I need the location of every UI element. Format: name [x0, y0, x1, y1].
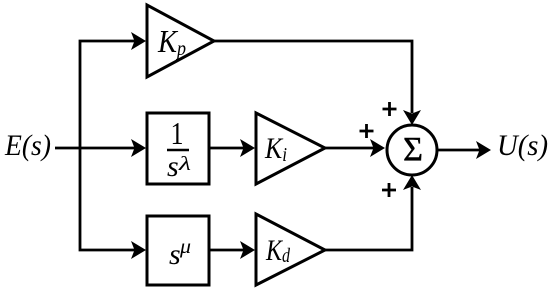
svg-text:U(s): U(s) [497, 129, 548, 162]
svg-text:1: 1 [171, 115, 184, 151]
svg-text:s: s [167, 150, 179, 183]
svg-text:μ: μ [179, 236, 191, 258]
svg-text:s: s [169, 238, 181, 271]
svg-text:E(s): E(s) [4, 129, 51, 162]
svg-text:Σ: Σ [403, 131, 423, 168]
svg-text:λ: λ [178, 153, 192, 175]
